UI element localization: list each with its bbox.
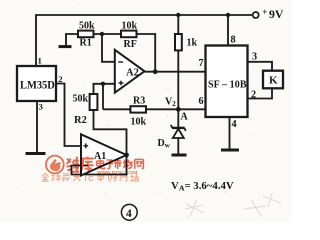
svg-text:R3: R3 xyxy=(133,96,145,107)
svg-text:4: 4 xyxy=(232,119,237,130)
svg-text:V2: V2 xyxy=(165,97,176,108)
svg-text:10k: 10k xyxy=(122,21,138,32)
svg-text:9V: 9V xyxy=(269,7,284,21)
svg-text:R2: R2 xyxy=(74,115,87,126)
svg-text:IC: IC xyxy=(85,174,96,183)
svg-text:4: 4 xyxy=(126,208,132,220)
svg-text:1k: 1k xyxy=(187,38,198,49)
svg-text:50k: 50k xyxy=(79,21,95,32)
svg-text:3: 3 xyxy=(252,52,257,63)
svg-text:K: K xyxy=(269,75,278,87)
svg-text:A2: A2 xyxy=(126,68,139,79)
svg-text:RF: RF xyxy=(124,39,137,50)
svg-text:VA= 3.6~4.4V: VA= 3.6~4.4V xyxy=(171,180,234,193)
svg-text:2: 2 xyxy=(251,90,256,101)
svg-text:A: A xyxy=(181,112,189,123)
svg-text:LM35D: LM35D xyxy=(20,80,55,92)
svg-text:SF – 10B: SF – 10B xyxy=(208,80,247,91)
svg-text:3: 3 xyxy=(39,102,44,112)
svg-text:7: 7 xyxy=(199,58,204,69)
svg-text:1: 1 xyxy=(38,56,42,66)
svg-text:Dw: Dw xyxy=(158,138,171,149)
svg-text:+: + xyxy=(262,7,267,17)
svg-text:50k: 50k xyxy=(73,94,89,105)
svg-text:2: 2 xyxy=(58,74,63,84)
svg-text:WWW.DZSC.COM: WWW.DZSC.COM xyxy=(97,170,137,176)
svg-text:6: 6 xyxy=(199,96,204,107)
svg-text:8: 8 xyxy=(231,35,236,46)
svg-text:10k: 10k xyxy=(131,117,147,128)
svg-text:R1: R1 xyxy=(80,38,92,49)
